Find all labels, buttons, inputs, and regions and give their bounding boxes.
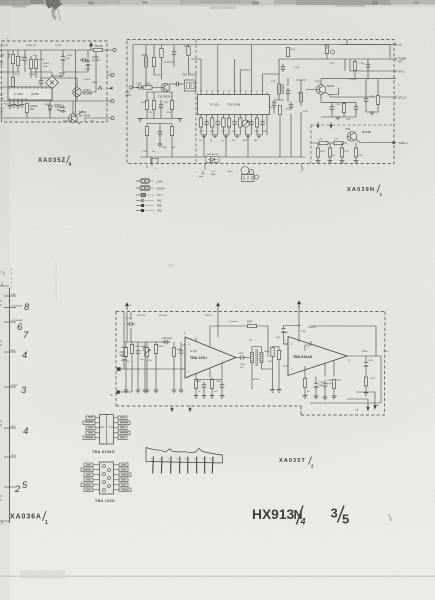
ground under IC pin2	[213, 135, 218, 138]
tick CH	[395, 43, 397, 46]
opamp input ticks	[182, 337, 222, 378]
wire NF terminal	[120, 369, 132, 392]
ground under IC pin1	[202, 135, 207, 138]
resistor R315	[332, 380, 335, 389]
ground C306	[202, 396, 207, 399]
left edge cut wires	[0, 56, 4, 113]
ground under IC pin3	[224, 135, 229, 138]
cut border dashes above	[11, 268, 13, 289]
TBA120U left pin boxes	[81, 463, 100, 492]
power arrow top2	[217, 303, 220, 310]
feedback resistor R307	[248, 324, 257, 327]
ground R317	[364, 393, 369, 396]
ground lower left	[138, 119, 143, 122]
wire power across	[298, 301, 300, 326]
resistor Rv1	[319, 141, 328, 144]
pot R303	[145, 348, 148, 357]
resistor R120	[353, 62, 356, 71]
resistor R1306 top right	[94, 48, 103, 51]
ground R306	[194, 396, 199, 399]
capacitor C1303 electrolytic	[86, 59, 91, 67]
capacitor	[232, 119, 237, 127]
ground under IC pin5	[246, 135, 251, 138]
opamp IC302 triangle	[288, 337, 347, 376]
resistor R116	[278, 106, 281, 115]
ground R309	[270, 390, 275, 393]
transistor T103	[316, 85, 326, 95]
transformer core	[256, 349, 258, 366]
lower-left extra cap	[158, 129, 163, 137]
capacitor C303	[143, 345, 148, 353]
coil L106	[300, 92, 303, 102]
resistor R121	[342, 104, 345, 113]
legend	[136, 179, 165, 213]
resistor R1302	[16, 57, 19, 66]
connector tick low	[4, 486, 16, 488]
capacitor C306	[202, 382, 207, 390]
trimmer pot T	[242, 120, 249, 127]
TBA810AS left pin boxes	[83, 416, 100, 440]
exit wire CH	[340, 44, 396, 46]
wire R105	[188, 45, 190, 75]
TBA810AS pinout body	[100, 415, 114, 445]
ground C net5	[145, 390, 150, 393]
terminal NF on border	[116, 390, 119, 393]
connector tick ZF B	[4, 456, 16, 458]
exit wire L	[394, 78, 396, 80]
extra right caps	[364, 96, 369, 104]
wire bottom right	[85, 118, 111, 122]
capacitor C302	[136, 348, 141, 356]
input wire	[121, 368, 185, 370]
wire to filter	[169, 83, 185, 85]
capacitor C1302 electrolytic	[61, 54, 66, 62]
IC pins top	[201, 93, 267, 95]
coil L105	[278, 84, 281, 94]
resistor R302	[130, 345, 133, 354]
lower-left extra resistor2	[170, 127, 173, 136]
extra right ground	[370, 112, 375, 115]
faint pencil squiggle mid page	[168, 264, 173, 267]
partition dashed x196	[195, 40, 197, 164]
capacitor C1304	[39, 78, 44, 86]
output cap C319	[364, 360, 369, 368]
top scan edge band	[0, 0, 435, 21]
resistor R104	[145, 101, 148, 110]
cut border line	[9, 288, 11, 523]
wire C313	[130, 312, 132, 342]
resistor	[239, 118, 242, 127]
legend row L-DW coil symbol	[136, 180, 140, 182]
ground under IC pin6	[257, 135, 262, 138]
resistor R305	[172, 348, 175, 357]
ground IC pin	[12, 105, 17, 108]
capacitor C110	[272, 100, 277, 108]
legend row 94O	[136, 210, 141, 212]
IC1301 body	[8, 87, 52, 100]
resistor R309	[271, 348, 274, 357]
wire mid rail	[0, 62, 107, 101]
bottom bracket	[0, 521, 9, 524]
wire T1303 collector	[77, 111, 83, 124]
wire top supply rail	[0, 50, 95, 118]
ground video4	[354, 161, 359, 164]
partition dashed video section	[311, 125, 394, 164]
T103 wires	[306, 79, 394, 103]
block B : XA039N/1	[126, 40, 409, 182]
wire to term75	[107, 74, 111, 76]
power arrow top1	[126, 303, 129, 310]
resistor	[227, 118, 230, 127]
stepped output wires	[347, 392, 379, 407]
top bracket	[0, 283, 9, 286]
IC101 body	[198, 95, 270, 115]
caps under IC302 : resistor R314	[303, 379, 306, 388]
wires under IC302	[305, 366, 334, 397]
wire apex	[236, 357, 250, 359]
small triangle mark	[98, 86, 102, 89]
wire L101 R101	[146, 45, 161, 88]
wires mid right	[270, 59, 319, 114]
comb pins	[153, 457, 213, 474]
resistor R114	[286, 48, 289, 57]
connector tick VIDEO with pin 3	[4, 386, 16, 388]
resistor Rv6 vertical	[354, 148, 357, 157]
input terminal on border	[117, 367, 121, 371]
ground mid right	[336, 117, 341, 120]
faint bottom scan line	[0, 576, 435, 578]
exit wire TUNER AFC	[319, 58, 396, 60]
resistor R107	[170, 101, 173, 110]
block D : XA036A left edge	[0, 268, 30, 524]
resistor R310	[277, 351, 280, 360]
resistor R103	[143, 86, 152, 89]
wire to term101	[107, 100, 111, 102]
resistor top right with pot	[325, 45, 328, 54]
ground IC pin3	[8, 106, 13, 109]
capacitor C301	[122, 354, 127, 362]
wire C312	[284, 326, 300, 345]
wire C101	[164, 45, 174, 68]
diode D1302	[48, 104, 52, 113]
capacitor C108	[281, 64, 286, 72]
capacitor C1307	[80, 58, 88, 63]
components under IC: resistor	[199, 118, 202, 127]
resistor R317	[364, 377, 367, 386]
pencil mark under box	[301, 163, 303, 171]
connector tick CAP	[4, 295, 16, 297]
resistor R1308 below IC	[25, 104, 28, 113]
ground C307	[220, 396, 225, 399]
wires under T103	[321, 102, 356, 117]
ground C318	[323, 397, 328, 400]
power node dot	[298, 325, 300, 327]
ground C net3	[136, 390, 141, 393]
connector tick ABC with pin 4	[4, 351, 16, 353]
module border XA039N	[127, 40, 394, 164]
terminal right 101	[111, 99, 114, 102]
comb alignment diagram body	[146, 448, 223, 464]
module border XA035Z	[2, 41, 108, 122]
terminal right 75	[111, 73, 114, 76]
legend row L-DGW coil symbol	[136, 187, 140, 189]
capacitor C111	[286, 88, 291, 96]
resistor Rv5 vertical	[340, 148, 343, 157]
capacitor	[260, 119, 265, 127]
resistor R308	[210, 380, 213, 389]
under IC wires to rail	[201, 118, 267, 135]
capacitor C103	[159, 102, 164, 110]
ground C net8	[179, 390, 184, 393]
terminal right 88	[107, 87, 113, 90]
ground IC pin2	[20, 105, 25, 108]
left edge small mark	[0, 272, 4, 276]
terminal bottom right	[111, 116, 114, 119]
capacitor C116	[366, 62, 371, 70]
IC pin stubs below	[10, 100, 22, 105]
coupling capacitor C308	[238, 355, 246, 360]
block A : XA035Z/4	[0, 36, 116, 124]
faint pencil tick right of 3/5	[389, 514, 392, 521]
ground lower left2	[178, 119, 183, 122]
output wire	[347, 355, 381, 357]
ground R308	[210, 396, 215, 399]
TBA120U pinout body	[100, 462, 114, 494]
capacitor C126	[354, 104, 359, 112]
ground R314	[303, 396, 308, 399]
resistor R101	[152, 58, 155, 67]
capacitor C304 horizontal	[162, 340, 170, 345]
transistor T102	[161, 83, 170, 92]
ground under IC pin4	[235, 135, 240, 138]
resistor R106	[152, 101, 155, 110]
extra right wires	[366, 79, 378, 113]
video wires	[311, 140, 393, 144]
wire R317	[365, 386, 367, 393]
resistor R1301	[11, 55, 14, 64]
wires	[355, 59, 368, 79]
resistor Rv4 vertical	[328, 148, 331, 157]
legend row 10V	[136, 194, 141, 196]
resistor	[222, 118, 225, 127]
TBA120U right pin boxes	[114, 463, 132, 492]
transformer TR301 primary	[251, 353, 254, 363]
ground R315	[332, 396, 337, 399]
capacitor	[249, 119, 254, 127]
lower-left extra wires	[147, 124, 172, 158]
capacitor C305	[179, 348, 184, 356]
wires under IC301	[196, 378, 222, 396]
wire R102	[161, 45, 163, 80]
ground C net7	[172, 390, 177, 393]
ground C317	[314, 396, 319, 399]
block C : XA035T/2	[110, 301, 389, 415]
core lines L105	[282, 84, 283, 94]
transistor T1304	[73, 88, 82, 97]
capacitor C318	[323, 381, 328, 389]
left margin dashes	[0, 300, 2, 501]
input terminal	[129, 86, 132, 89]
capacitor C1305	[61, 105, 66, 113]
connector tick NORC with pin 6	[4, 321, 16, 323]
wire C301	[124, 310, 218, 369]
module border XA035T	[116, 312, 385, 416]
transistor T1303	[69, 114, 78, 123]
resistor	[211, 118, 214, 127]
lower-left extra resistor	[145, 127, 148, 136]
output arrows to border	[367, 406, 376, 411]
transistor case bottom view	[241, 167, 249, 175]
legend row 4S1	[136, 199, 144, 202]
pinout diagrams	[81, 415, 223, 504]
resistor Rv3 vertical	[316, 148, 319, 157]
resistor R105 4.7k	[187, 47, 190, 56]
filter F102 body	[185, 80, 196, 91]
resistor R304	[154, 345, 157, 354]
pot circle	[331, 50, 335, 54]
resistor Rv2	[334, 141, 343, 144]
capacitor C104	[174, 82, 182, 87]
resistor R301	[124, 348, 127, 357]
transformer secondary	[260, 353, 263, 363]
capacitor C113	[289, 102, 294, 110]
power arrow top3	[298, 301, 301, 308]
connector tick NORCAP with pin 8	[4, 307, 16, 309]
connector tick MF L with pin 4	[4, 427, 16, 429]
resistor R1305	[11, 78, 14, 87]
wire input	[133, 87, 161, 89]
capacitor C312	[281, 326, 286, 334]
feedback loop	[310, 326, 381, 403]
left network wires	[126, 342, 185, 390]
arrows on video partition	[317, 122, 319, 128]
power arrow	[90, 43, 93, 50]
resistor	[255, 118, 258, 127]
opamp IC301 triangle	[185, 337, 236, 378]
feedback wires	[210, 326, 268, 357]
wire bottom rail	[0, 50, 114, 118]
IC1301 pin ticks	[10, 87, 50, 100]
wires right mid	[330, 59, 350, 97]
ground C net6	[154, 390, 159, 393]
paper shading patches	[0, 0, 435, 470]
capacitor C102	[136, 85, 144, 90]
ground video2	[328, 161, 333, 164]
exit wire AFC 1a	[330, 96, 396, 98]
terminal out top right	[113, 48, 116, 51]
wire pot	[326, 45, 328, 60]
D101 diode on border	[206, 157, 219, 163]
capacitor C307	[220, 382, 225, 390]
legend row 84O	[136, 205, 141, 207]
ground C net4	[143, 390, 148, 393]
big labels	[10, 156, 392, 527]
IC top pin wires	[191, 45, 271, 93]
capacitor C313 top	[127, 322, 135, 327]
capacitor	[204, 119, 209, 127]
components under IC301: resistor R306	[194, 380, 197, 389]
arrow exit VIDEO	[393, 141, 397, 144]
wires lower left	[140, 92, 180, 119]
staple jumper on bottom border	[152, 159, 158, 167]
ground video3	[340, 161, 345, 164]
ground video1	[316, 161, 321, 164]
exit wire AFC u	[350, 70, 396, 72]
ground IC pin4	[16, 106, 21, 109]
electrolytic C317	[314, 381, 319, 389]
TBA810AS right pin boxes	[114, 416, 131, 440]
capacitor C1301	[23, 55, 28, 63]
IC pins bottom	[201, 115, 267, 120]
extra right resistor	[376, 96, 379, 105]
transformer wires	[252, 347, 273, 390]
diode bridge diamond D1301	[46, 76, 59, 89]
wire out down	[365, 356, 367, 377]
resistor R1304	[34, 60, 37, 69]
tear blotch top-left	[45, 0, 63, 11]
resistor R102	[160, 49, 163, 58]
capacitor	[216, 119, 221, 127]
capacitor C101	[172, 49, 177, 57]
coil L101	[145, 57, 148, 67]
ground C net1	[124, 390, 129, 393]
capacitor C124	[330, 104, 335, 112]
wires R309 R310	[273, 347, 280, 390]
video ground wires	[318, 143, 356, 161]
arrows below border	[171, 406, 173, 411]
faint crease line mid-left	[55, 262, 58, 300]
lower-left extra grounds	[158, 144, 163, 147]
supply rail	[133, 40, 390, 88]
ground R310	[277, 390, 282, 393]
video amp transistor T104	[347, 132, 357, 142]
bottom rail	[140, 112, 305, 164]
resistor R1303	[29, 60, 32, 69]
label U Fger	[204, 164, 206, 170]
